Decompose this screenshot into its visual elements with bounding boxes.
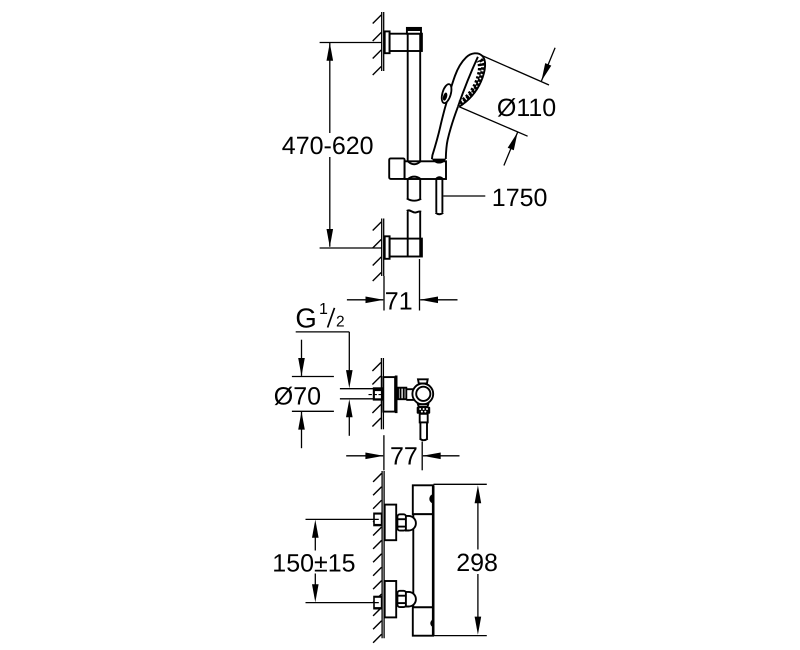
- shower rail upper section: [408, 34, 421, 162]
- spray mode button: [440, 83, 453, 104]
- svg-text:71: 71: [385, 287, 413, 315]
- wall top bracket: [373, 12, 384, 75]
- svg-text:1: 1: [319, 301, 328, 318]
- svg-text:1750: 1750: [492, 184, 548, 212]
- wall bottom bracket: [373, 219, 384, 282]
- dimension 298: [434, 484, 498, 635]
- slider holder: [389, 158, 446, 179]
- svg-text:77: 77: [390, 443, 418, 471]
- rail cap: [407, 28, 422, 34]
- shower rail below slider with break: [407, 179, 421, 257]
- svg-text:150±15: 150±15: [272, 549, 355, 577]
- upper bell connection: [406, 516, 416, 531]
- lower escutcheon: [385, 581, 397, 617]
- wall middle outlet: [372, 358, 383, 429]
- lower supply union: [373, 596, 382, 610]
- thermostat body: [413, 485, 434, 636]
- hose: [436, 179, 444, 214]
- hand shower: [432, 53, 485, 163]
- wall union nut: [369, 387, 387, 400]
- dimension 150±15: [272, 519, 379, 602]
- supply pipe G1/2: [340, 389, 373, 399]
- face plate outer edge: [459, 56, 485, 107]
- dimension 77: [346, 435, 459, 470]
- lower S-union nut: [397, 591, 406, 607]
- face plate inner edge: [458, 57, 478, 106]
- lower bell connection: [406, 592, 416, 607]
- nozzle dots: [460, 60, 483, 105]
- svg-text:G: G: [295, 303, 316, 334]
- svg-text:470-620: 470-620: [282, 132, 374, 160]
- dimension Ø110: [459, 48, 556, 166]
- dimension 470-620: [282, 43, 382, 249]
- handle seat crescent: [432, 159, 446, 164]
- leader 1750: [443, 184, 547, 212]
- wall thermostat: [373, 471, 384, 643]
- connection nut and ball holder: [398, 379, 433, 406]
- knurled hose nut: [417, 407, 431, 414]
- svg-text:Ø110: Ø110: [497, 94, 556, 122]
- bottom rail bracket: [385, 236, 422, 258]
- svg-text:2: 2: [336, 314, 345, 331]
- upper escutcheon: [385, 505, 397, 541]
- dimension 71: [347, 259, 458, 315]
- svg-text:298: 298: [456, 549, 498, 577]
- label G 1/2 with leader: [295, 301, 352, 436]
- top rail bracket: [385, 31, 422, 53]
- upper S-union nut: [397, 514, 406, 530]
- outlet tube: [420, 414, 428, 440]
- svg-text:Ø70: Ø70: [274, 383, 321, 411]
- escutcheon Ø70: [383, 376, 397, 414]
- upper supply union: [373, 513, 382, 527]
- dimension Ø70: [274, 340, 334, 449]
